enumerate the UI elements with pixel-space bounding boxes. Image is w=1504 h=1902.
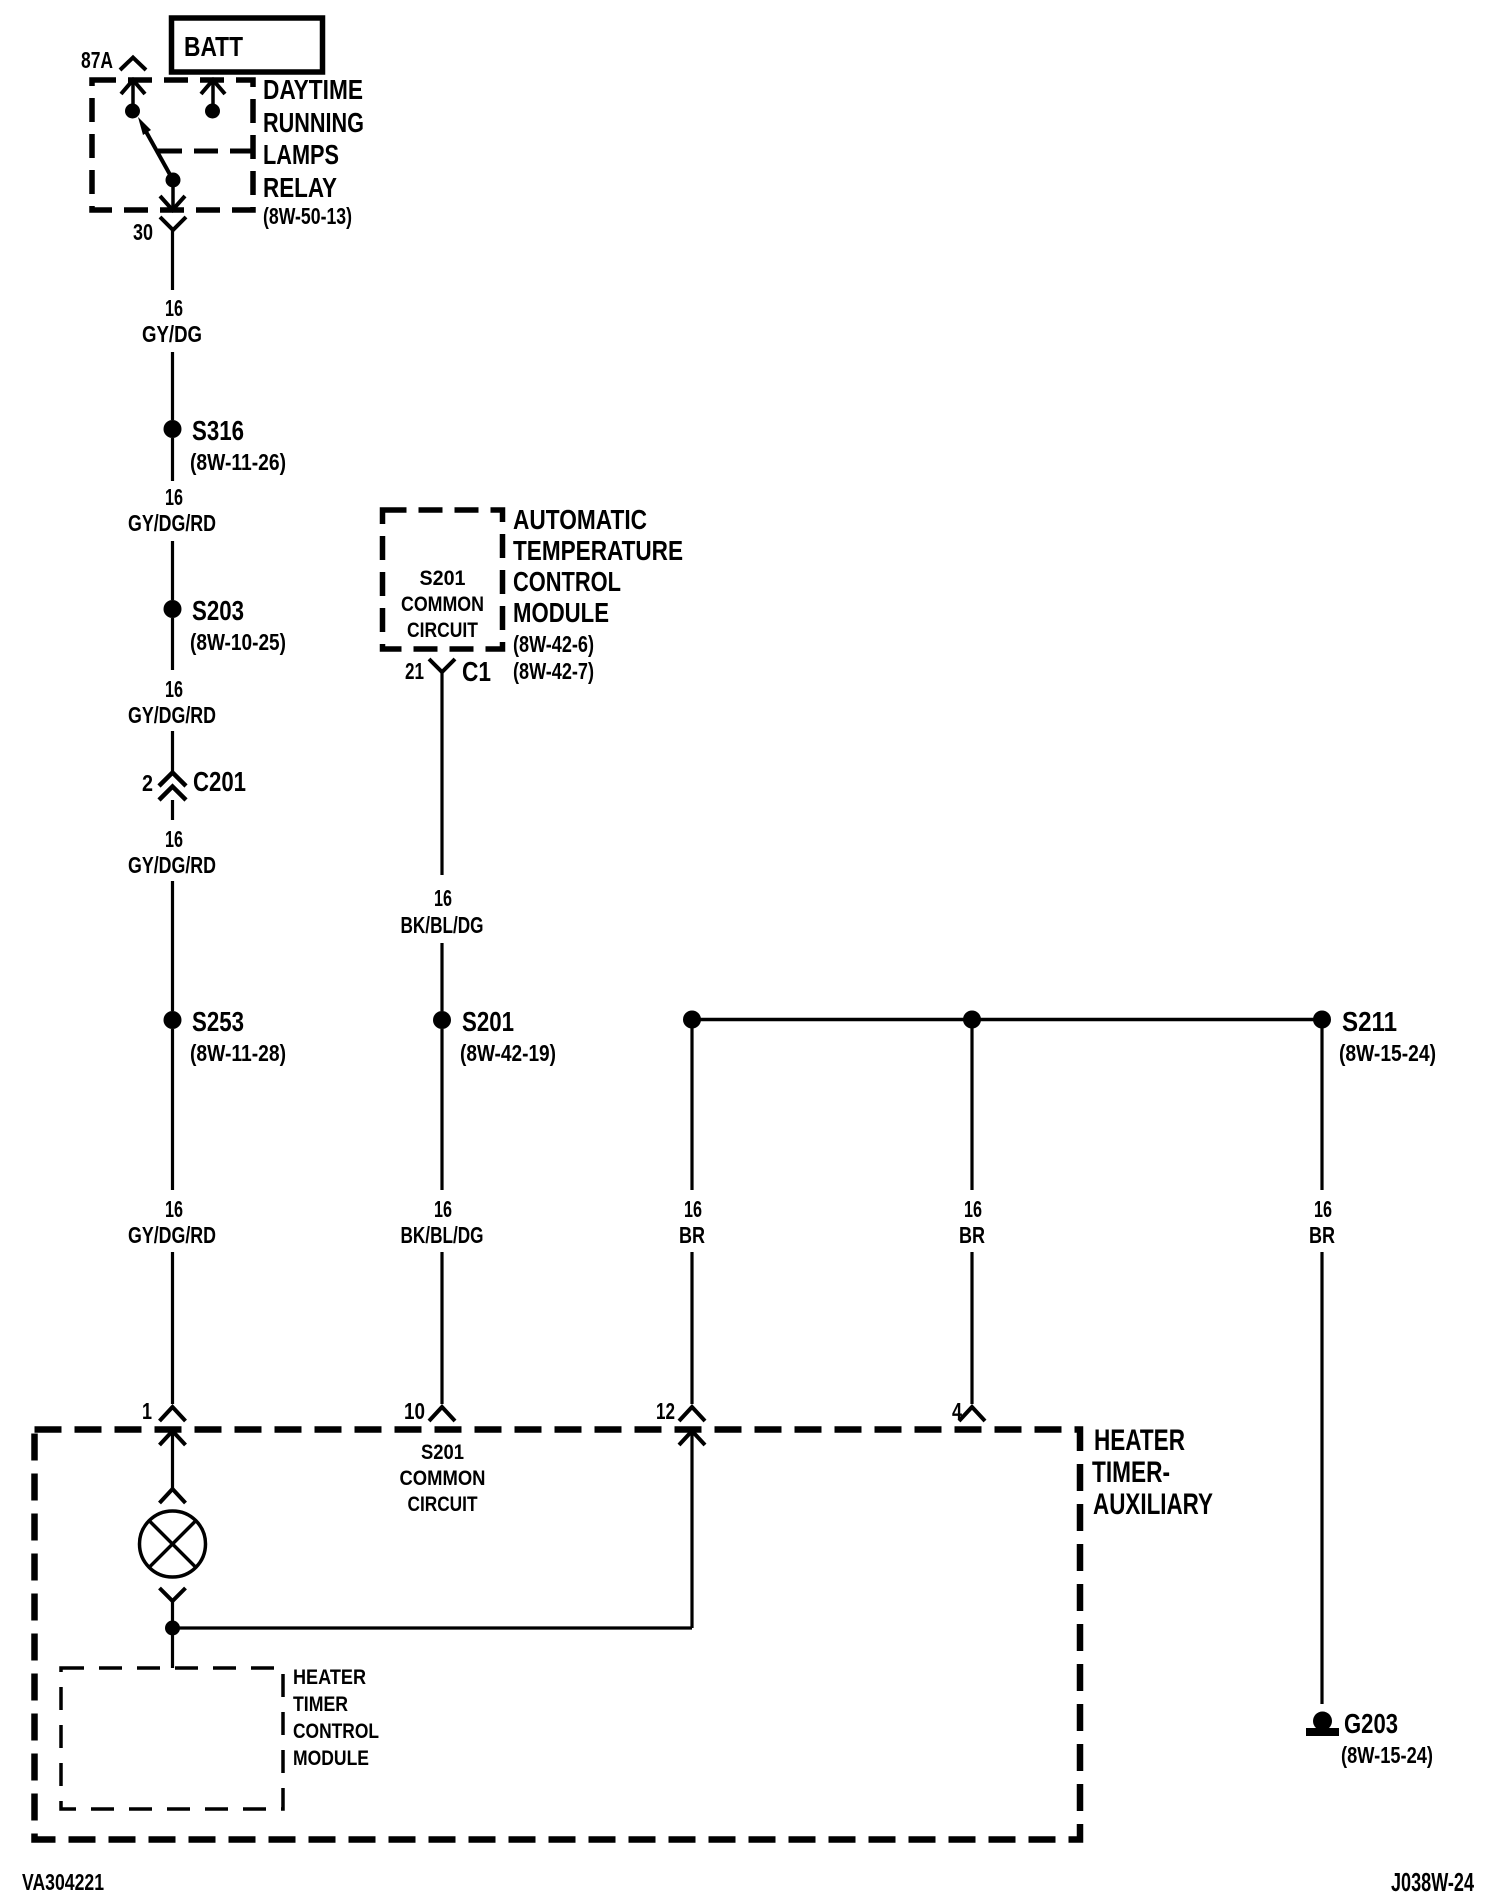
svg-text:(8W-15-24): (8W-15-24) — [1341, 1742, 1433, 1768]
svg-text:BK/BL/DG: BK/BL/DG — [401, 912, 484, 938]
svg-text:HEATER: HEATER — [1094, 1424, 1185, 1457]
svg-text:16: 16 — [165, 826, 183, 852]
svg-text:LAMPS: LAMPS — [263, 139, 339, 170]
svg-text:10: 10 — [404, 1398, 425, 1424]
svg-text:12: 12 — [656, 1398, 675, 1424]
svg-text:(8W-10-25): (8W-10-25) — [190, 629, 286, 655]
svg-text:21: 21 — [405, 658, 424, 684]
svg-text:C201: C201 — [193, 766, 246, 797]
svg-text:C1: C1 — [462, 656, 491, 687]
svg-text:(8W-15-24): (8W-15-24) — [1339, 1040, 1436, 1066]
svg-text:RELAY: RELAY — [263, 172, 337, 203]
svg-text:MODULE: MODULE — [513, 597, 609, 628]
svg-text:16: 16 — [165, 676, 183, 702]
svg-text:GY/DG/RD: GY/DG/RD — [128, 510, 216, 536]
svg-text:16: 16 — [165, 295, 183, 321]
svg-text:S201: S201 — [421, 1441, 464, 1464]
svg-text:CIRCUIT: CIRCUIT — [407, 619, 478, 642]
svg-text:MODULE: MODULE — [293, 1747, 369, 1770]
svg-text:BR: BR — [959, 1222, 985, 1248]
svg-text:16: 16 — [165, 1196, 183, 1222]
svg-text:HEATER: HEATER — [293, 1666, 366, 1689]
svg-text:(8W-50-13): (8W-50-13) — [263, 203, 352, 229]
svg-text:16: 16 — [684, 1196, 702, 1222]
svg-text:AUTOMATIC: AUTOMATIC — [513, 504, 647, 535]
svg-text:(8W-42-6): (8W-42-6) — [513, 631, 594, 657]
svg-text:GY/DG: GY/DG — [142, 321, 202, 347]
svg-text:(8W-42-7): (8W-42-7) — [513, 658, 594, 684]
svg-text:S201: S201 — [420, 567, 466, 590]
svg-text:COMMON: COMMON — [400, 1467, 486, 1490]
svg-text:16: 16 — [434, 1196, 452, 1222]
svg-text:(8W-11-28): (8W-11-28) — [190, 1040, 286, 1066]
svg-text:CONTROL: CONTROL — [513, 566, 621, 597]
svg-text:DAYTIME: DAYTIME — [263, 74, 363, 105]
svg-text:16: 16 — [1314, 1196, 1332, 1222]
svg-text:(8W-11-26): (8W-11-26) — [190, 449, 286, 475]
svg-text:GY/DG/RD: GY/DG/RD — [128, 1222, 216, 1248]
svg-text:TIMER: TIMER — [293, 1693, 348, 1716]
svg-text:RUNNING: RUNNING — [263, 107, 364, 138]
svg-text:16: 16 — [964, 1196, 982, 1222]
svg-text:30: 30 — [133, 219, 153, 245]
svg-text:S253: S253 — [192, 1006, 244, 1037]
svg-text:BR: BR — [679, 1222, 705, 1248]
svg-text:COMMON: COMMON — [401, 593, 484, 616]
svg-text:2: 2 — [142, 770, 153, 796]
svg-text:16: 16 — [165, 484, 183, 510]
svg-text:(8W-42-19): (8W-42-19) — [460, 1040, 556, 1066]
svg-text:CIRCUIT: CIRCUIT — [408, 1493, 478, 1516]
svg-text:AUXILIARY: AUXILIARY — [1093, 1488, 1213, 1521]
svg-text:BK/BL/DG: BK/BL/DG — [401, 1222, 484, 1248]
svg-text:J038W-24: J038W-24 — [1391, 1867, 1474, 1897]
svg-text:BR: BR — [1309, 1222, 1335, 1248]
svg-text:CONTROL: CONTROL — [293, 1720, 379, 1743]
svg-text:BATT: BATT — [184, 31, 243, 62]
svg-text:GY/DG/RD: GY/DG/RD — [128, 852, 216, 878]
svg-text:GY/DG/RD: GY/DG/RD — [128, 702, 216, 728]
svg-text:S211: S211 — [1342, 1006, 1397, 1037]
svg-text:87A: 87A — [81, 47, 113, 73]
svg-text:S201: S201 — [462, 1006, 514, 1037]
svg-text:16: 16 — [434, 885, 452, 911]
svg-text:TIMER-: TIMER- — [1092, 1456, 1170, 1489]
svg-text:1: 1 — [142, 1398, 152, 1424]
svg-text:S203: S203 — [192, 595, 244, 626]
svg-text:VA304221: VA304221 — [22, 1869, 104, 1895]
svg-text:TEMPERATURE: TEMPERATURE — [513, 535, 683, 566]
svg-text:G203: G203 — [1344, 1708, 1398, 1739]
svg-text:S316: S316 — [192, 415, 244, 446]
